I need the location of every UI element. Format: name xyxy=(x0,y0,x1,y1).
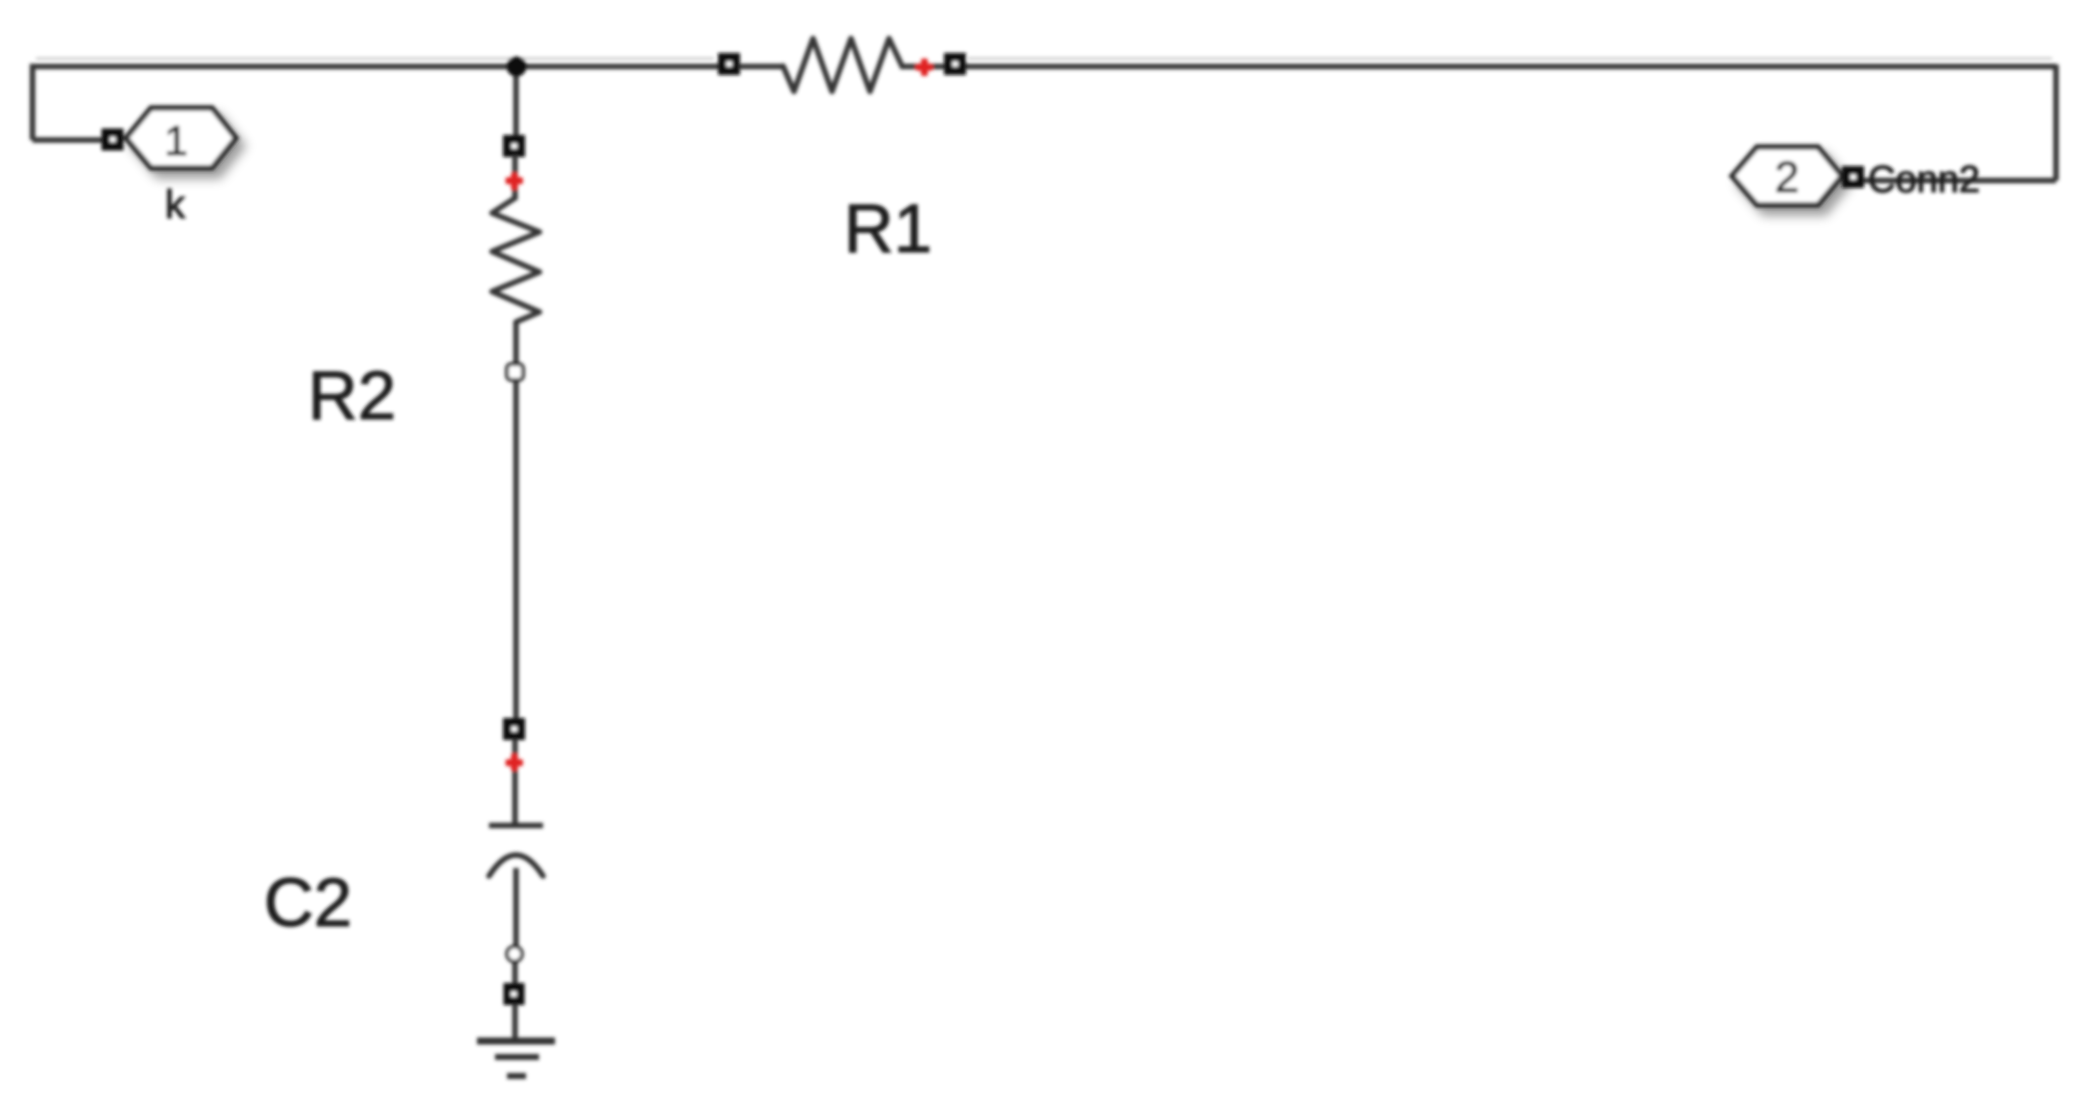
wire left stub into port 1 xyxy=(33,137,105,143)
ground port square xyxy=(504,983,525,1005)
capacitor C2 top port square xyxy=(503,718,525,740)
svg-text:R2: R2 xyxy=(308,357,396,434)
svg-text:R1: R1 xyxy=(844,190,932,267)
resistor R1 zigzag xyxy=(783,39,902,92)
wire ground port to ground symbol xyxy=(512,1004,518,1041)
resistor R1 left port square xyxy=(718,53,740,75)
hexagon port block 1 xyxy=(126,108,236,168)
resistor R1 right lead xyxy=(900,64,946,70)
wire R2 to C2 xyxy=(513,380,519,720)
capacitor C2 straight plate xyxy=(489,823,543,829)
capacitor C2 curved plate xyxy=(489,855,543,876)
wire junction to R1 left port xyxy=(516,64,720,70)
svg-text:Conn2: Conn2 xyxy=(1868,159,1980,201)
wire junction down to R2 port xyxy=(513,67,519,138)
node junction dot xyxy=(507,57,527,77)
resistor R2 top port square xyxy=(503,135,525,157)
wire right vertical drop xyxy=(2053,65,2059,181)
resistor R2 zigzag xyxy=(492,198,540,322)
hexagon port block 2 xyxy=(1732,147,1842,205)
svg-text:k: k xyxy=(165,183,186,227)
wire marker to ground port xyxy=(512,963,518,985)
wire R1 right port to top-right corner xyxy=(964,64,2056,70)
port block 2 connector square xyxy=(1842,166,1864,188)
R1 polarity marker (red plus) xyxy=(916,59,934,77)
resistor R1 right port square xyxy=(944,53,966,75)
capacitor C2 top lead xyxy=(512,739,518,824)
resistor R1 lead xyxy=(739,64,783,70)
C2 bottom open terminal marker xyxy=(507,947,522,962)
R2 bottom open terminal marker xyxy=(507,364,523,380)
wire right horizontal into Conn2 port xyxy=(1861,178,2056,184)
resistor R2 top lead xyxy=(512,155,518,200)
wire highlight ghost above top net xyxy=(36,57,714,60)
svg-text:2: 2 xyxy=(1775,153,1799,202)
wire top net: left corner to junction xyxy=(33,67,517,141)
R2 polarity marker (red plus) xyxy=(506,173,524,191)
C2 polarity marker (red plus) xyxy=(506,754,524,772)
ground xyxy=(477,1041,555,1076)
svg-text:C2: C2 xyxy=(264,864,352,941)
svg-text:1: 1 xyxy=(164,117,187,164)
capacitor C2 bottom lead xyxy=(513,868,519,947)
resistor R2 bottom lead xyxy=(513,321,519,364)
port block 1 connector square xyxy=(102,129,124,151)
